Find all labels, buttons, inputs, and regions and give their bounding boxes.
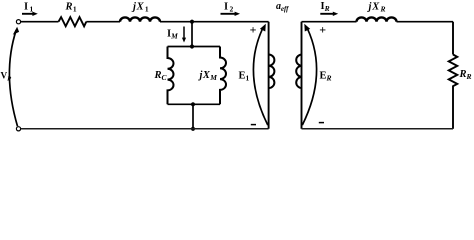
inductor jX_M — [220, 47, 226, 105]
inductor jX1 — [120, 17, 160, 21]
wire feed to magnetizing branch — [191, 22, 193, 47]
arrow I_M — [183, 27, 185, 39]
svg-text:IM: IM — [167, 29, 178, 41]
wire rotor right side lower — [452, 89, 454, 129]
svg-text:IR: IR — [321, 1, 330, 13]
resistor R_R — [449, 55, 458, 89]
svg-text:I1: I1 — [24, 2, 33, 14]
terminal bottom-left — [16, 127, 20, 131]
source V_P curved arrow — [9, 30, 17, 126]
resistor R1 — [59, 17, 87, 26]
svg-text:E1: E1 — [239, 71, 250, 83]
svg-text:jXM: jXM — [198, 70, 218, 82]
svg-text:+: + — [319, 22, 326, 36]
wire rotor bottom rail — [302, 128, 454, 130]
wire drop to bottom rail — [192, 104, 194, 129]
arrow I_1 — [22, 13, 34, 15]
wire — [86, 21, 120, 23]
wire rotor top rail right — [397, 21, 454, 23]
wire bottom rail primary — [21, 128, 269, 130]
node junction on bottom bar — [191, 102, 195, 106]
svg-text:aeff: aeff — [276, 1, 289, 13]
svg-text:+: + — [250, 22, 257, 36]
arrow I_R — [320, 13, 334, 15]
svg-text:jXR: jXR — [367, 2, 386, 14]
svg-text:RC: RC — [154, 70, 168, 82]
svg-text:RR: RR — [459, 69, 472, 81]
svg-text:VP: VP — [1, 71, 13, 83]
svg-text:jX1: jX1 — [131, 2, 149, 14]
transformer rotor winding return arc — [302, 29, 316, 125]
transformer primary winding coil — [269, 55, 275, 89]
label minus (ER) — [319, 122, 324, 124]
svg-text:ER: ER — [320, 71, 332, 83]
svg-text:I2: I2 — [224, 2, 233, 14]
wire primary right side — [268, 22, 270, 129]
wire top-left — [21, 21, 59, 23]
arrow I_2 — [221, 13, 236, 15]
terminal top-left — [16, 20, 20, 24]
wire — [160, 21, 269, 23]
node junction top — [190, 20, 194, 24]
node junction bottom rail — [191, 127, 195, 131]
inductor jX_R — [357, 17, 397, 21]
node junction on top bar — [190, 44, 194, 48]
wire top bar of parallel branch — [168, 46, 221, 48]
wire rotor left side — [301, 22, 303, 129]
wire bottom bar of parallel branch — [168, 103, 221, 105]
wire rotor right side upper — [452, 22, 454, 55]
transformer rotor winding coil — [296, 55, 302, 89]
svg-text:R1: R1 — [65, 2, 77, 14]
transformer primary winding return arc — [253, 29, 267, 125]
wire rotor top rail — [302, 21, 357, 23]
resistor R_C (coil-drawn branch) — [168, 47, 174, 105]
label minus (E1) — [251, 124, 256, 126]
